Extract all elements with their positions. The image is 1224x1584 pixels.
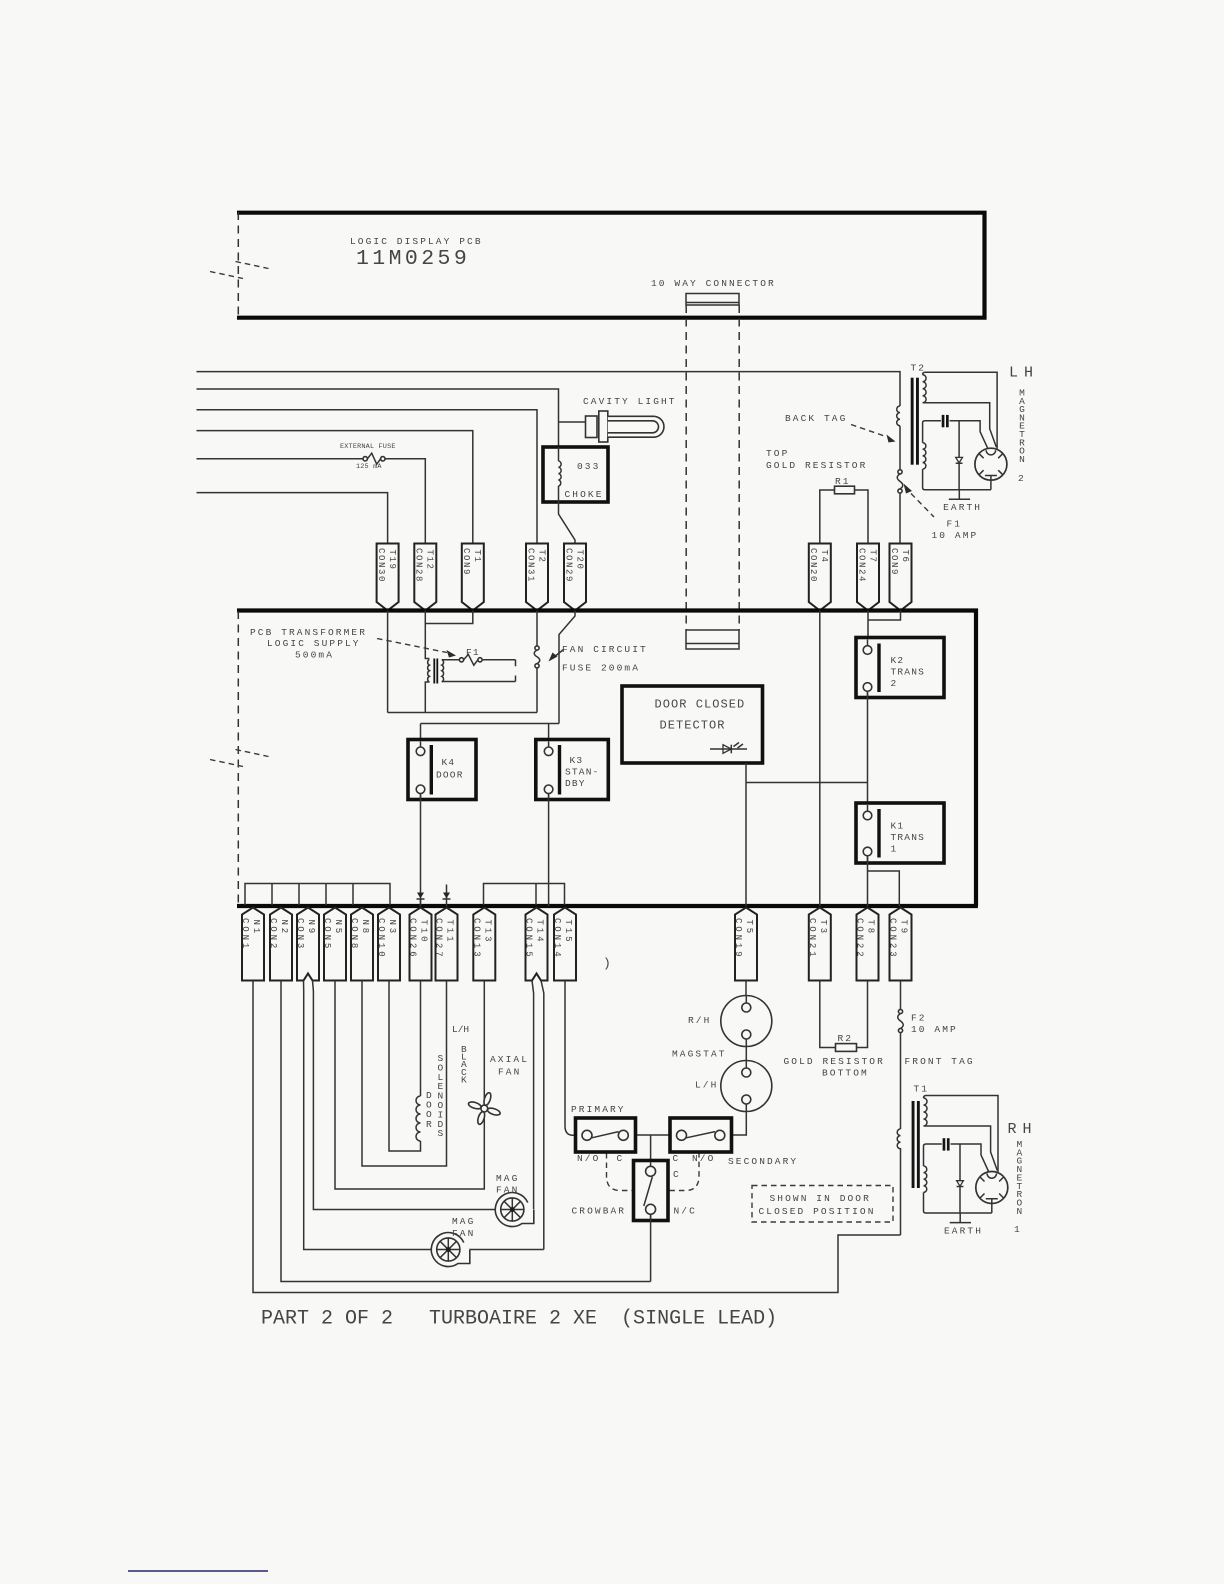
footer rule	[128, 1570, 268, 1572]
contact mark T11	[443, 885, 451, 907]
magstat L/H	[721, 1061, 772, 1112]
connector CON5/N5	[322, 908, 346, 981]
svg-text:DOOR CLOSED: DOOR CLOSED	[655, 698, 746, 712]
wire: fuse F1 to CON9/T6	[899, 493, 901, 543]
svg-text:SOLENOIDS: SOLENOIDS	[438, 1053, 444, 1139]
label BACK TAG with leader	[785, 413, 896, 443]
wire: K1 to CON22 and CON23	[868, 856, 900, 906]
PCB transformer logic supply	[425, 624, 515, 713]
wire: magstat to secondary switch	[732, 1104, 747, 1135]
wire B: feed to cavity light and choke	[197, 389, 559, 447]
svg-text:CON21: CON21	[807, 918, 817, 960]
svg-text:N5: N5	[333, 920, 343, 937]
wire: CON20 to CON21 through	[819, 611, 821, 907]
svg-text:CROWBAR: CROWBAR	[572, 1206, 627, 1217]
svg-text:MAGNETRON: MAGNETRON	[1016, 1139, 1022, 1217]
svg-text:MAG: MAG	[452, 1216, 475, 1227]
svg-text:T7: T7	[867, 550, 877, 564]
connector CON31/T2	[525, 544, 548, 611]
svg-text:DBY: DBY	[565, 778, 586, 789]
svg-text:T14: T14	[535, 920, 545, 945]
svg-text:L/H: L/H	[695, 1080, 718, 1091]
fuse F2 10 AMP	[898, 1009, 904, 1032]
svg-text:CON22: CON22	[855, 918, 865, 960]
svg-text:CON31: CON31	[525, 548, 535, 583]
connector CON22/T8	[855, 908, 879, 981]
wire T3: CON21 to R2	[820, 981, 836, 1048]
wire N9b: CON3 to mag fan 1	[313, 981, 534, 1210]
fan circuit fuse 200mA	[534, 611, 540, 713]
svg-text:T2: T2	[536, 550, 546, 564]
svg-text:10 AMP: 10 AMP	[911, 1024, 958, 1035]
relay K1 TRANS 1	[856, 803, 944, 863]
svg-text:RH: RH	[1008, 1121, 1038, 1138]
wire: K4 to door solenoid connector	[420, 794, 422, 906]
wire N2: CON2 to crowbar	[281, 981, 651, 1282]
logic display PCB box left dashed edge	[237, 212, 239, 318]
svg-text:L/H: L/H	[452, 1024, 469, 1035]
main PCB box	[237, 608, 978, 906]
external fuse 125 mA	[363, 453, 385, 464]
svg-text:K3: K3	[570, 755, 584, 766]
10 way connector dashed ribbon	[686, 305, 739, 630]
relay K4 DOOR	[408, 740, 476, 800]
svg-text:CON27: CON27	[434, 918, 444, 960]
wire: detector branch to K1/K2 net	[746, 782, 868, 784]
wire N5: CON5 to CON13 via axial fan	[335, 981, 484, 1190]
svg-text:FRONT TAG: FRONT TAG	[905, 1056, 975, 1067]
svg-text:CON26: CON26	[408, 918, 418, 960]
svg-text:CON20: CON20	[808, 548, 818, 583]
shown in door closed position note	[752, 1186, 893, 1223]
svg-text:F1: F1	[466, 647, 480, 658]
connector CON21/T3	[807, 908, 831, 981]
svg-text:T15: T15	[563, 920, 573, 945]
wire T14b: CON15 to mag fan 2	[541, 981, 544, 1250]
leader arrow to F1	[377, 639, 456, 658]
svg-text:2: 2	[891, 678, 898, 689]
svg-text:TRANS: TRANS	[891, 667, 926, 678]
wire: switch common link	[636, 1134, 671, 1136]
svg-text:10 WAY CONNECTOR: 10 WAY CONNECTOR	[651, 278, 776, 289]
svg-text:FAN: FAN	[496, 1184, 519, 1195]
axial fan	[463, 1088, 505, 1130]
svg-text:TRANS: TRANS	[891, 832, 926, 843]
svg-text:T6: T6	[900, 550, 910, 564]
solder strip comb right	[484, 884, 565, 906]
connector CON28/T12	[414, 544, 437, 611]
wire: K2 to K1	[867, 691, 869, 811]
svg-text:CON8: CON8	[349, 918, 359, 951]
wire: K4 coil drop	[420, 724, 422, 748]
wire between magstats	[745, 996, 747, 1069]
wire: detector to CON19	[745, 763, 747, 906]
wire: R1 to CON24	[855, 490, 869, 544]
svg-text:R2: R2	[838, 1033, 854, 1044]
transformer T1 and magnetron 1 assembly	[912, 1096, 1008, 1237]
cavity light	[586, 411, 664, 442]
svg-text:SHOWN IN DOOR: SHOWN IN DOOR	[770, 1193, 871, 1204]
connector CON26/T10	[408, 908, 432, 981]
svg-text:T1: T1	[914, 1084, 930, 1095]
svg-text:DOOR: DOOR	[436, 770, 464, 781]
wire: CON24 and T6 to K2	[868, 611, 901, 646]
svg-text:LOGIC SUPPLY: LOGIC SUPPLY	[267, 638, 361, 649]
wire: cavity light branch	[559, 421, 586, 423]
svg-text:T8: T8	[866, 920, 876, 937]
svg-text:CON29: CON29	[563, 548, 573, 583]
crowbar switch	[634, 1161, 669, 1221]
svg-text:DOOR: DOOR	[426, 1090, 432, 1130]
wire N9a: CON3 to mag fan 2	[304, 981, 544, 1250]
svg-text:MAGSTAT: MAGSTAT	[672, 1049, 727, 1060]
svg-text:N9: N9	[306, 920, 316, 937]
wire N1: CON1 to T1 primary return	[253, 981, 901, 1293]
transformer T1 primary coil	[897, 1129, 900, 1149]
svg-text:CON3: CON3	[295, 918, 305, 951]
connector CON23/T9	[888, 908, 912, 981]
svg-text:TOP: TOP	[766, 448, 789, 459]
wire: K3 to CON15 strip	[548, 794, 550, 906]
connector CON15/T14	[524, 908, 548, 981]
connector CON30/T19	[376, 544, 399, 611]
broken link to fan rail	[515, 660, 517, 682]
svg-text:): )	[603, 956, 611, 971]
connector CON20/T4	[808, 544, 831, 611]
svg-text:AXIAL: AXIAL	[490, 1054, 529, 1065]
connector CON3/N9	[295, 908, 319, 981]
svg-text:1: 1	[891, 844, 898, 855]
svg-text:C: C	[673, 1169, 681, 1180]
svg-text:N8: N8	[360, 920, 370, 937]
wire T14a: CON15 to mag fan 1	[532, 981, 534, 1211]
svg-text:CAVITY LIGHT: CAVITY LIGHT	[583, 396, 677, 407]
door solenoids coil	[416, 1096, 421, 1141]
svg-text:T9: T9	[899, 920, 909, 937]
svg-text:N/C: N/C	[674, 1206, 697, 1217]
logic display PCB box 11M0259	[237, 211, 985, 320]
svg-text:125 mA: 125 mA	[356, 463, 382, 471]
wire: R2 to CON22	[857, 981, 868, 1048]
wire: crowbar common drop	[650, 1135, 652, 1167]
svg-text:T4: T4	[819, 550, 829, 564]
transformer T2 and magnetron 2 assembly	[911, 372, 1007, 513]
resistor R2 gold bottom	[836, 1044, 857, 1052]
svg-text:LOGIC DISPLAY PCB: LOGIC DISPLAY PCB	[350, 236, 483, 247]
svg-text:PART 2 OF 2 TURBOAIRE 2 XE: PART 2 OF 2 TURBOAIRE 2 XE (SINGLE LEAD)	[261, 1308, 777, 1331]
svg-text:STAN-: STAN-	[565, 767, 600, 778]
wire N8: CON8 to CON27	[362, 981, 447, 1167]
wire N3: CON10 to CON26 via door solenoids	[389, 981, 421, 1152]
svg-text:CON24: CON24	[856, 548, 866, 583]
svg-text:2: 2	[1018, 473, 1025, 484]
svg-text:T3: T3	[818, 920, 828, 937]
svg-text:SECONDARY: SECONDARY	[728, 1156, 798, 1167]
svg-text:BOTTOM: BOTTOM	[822, 1068, 869, 1079]
door closed detector box	[622, 686, 763, 763]
svg-text:N2: N2	[279, 920, 289, 937]
svg-text:T11: T11	[445, 920, 455, 945]
svg-text:CON28: CON28	[414, 548, 424, 583]
wire: choke to CON29	[559, 502, 576, 544]
svg-text:T5: T5	[744, 920, 754, 937]
10 way connector bottom header	[686, 630, 739, 649]
svg-text:T19: T19	[387, 550, 397, 571]
svg-text:T1: T1	[472, 550, 482, 564]
secondary interlock switch	[670, 1118, 732, 1152]
wire: CON29 to relay coil rail	[421, 611, 576, 724]
wire: crowbar to N2 row	[650, 1214, 652, 1281]
choke 033	[543, 447, 608, 502]
connector CON8/N8	[349, 908, 373, 981]
connector CON24/T7	[856, 544, 879, 611]
svg-text:N/O: N/O	[692, 1153, 715, 1164]
mag fan 2	[431, 1233, 470, 1267]
leader arrow to fan fuse	[549, 650, 564, 662]
wire: F2 to T1 primary	[900, 1033, 902, 1129]
wire: CON30 drop to rail	[387, 611, 389, 713]
contact mark T10	[417, 893, 425, 907]
svg-text:F2: F2	[911, 1013, 927, 1024]
10 way connector top header	[686, 294, 739, 306]
wire D: feed to CON9	[197, 431, 473, 544]
wire: CON28/CON9 junction loop	[425, 611, 473, 624]
svg-text:CON19: CON19	[733, 918, 743, 960]
svg-text:11M0259: 11M0259	[356, 247, 470, 271]
svg-text:BLACK: BLACK	[461, 1044, 467, 1085]
connector CON19/T5	[733, 908, 757, 981]
svg-text:BACK TAG: BACK TAG	[785, 413, 847, 424]
svg-text:K2: K2	[891, 655, 905, 666]
connector CON29/T20	[563, 544, 586, 611]
svg-text:FAN: FAN	[498, 1067, 521, 1078]
wire: T2 primary to fuse F1	[899, 426, 901, 470]
svg-text:CHOKE: CHOKE	[565, 489, 604, 500]
svg-text:F1: F1	[947, 519, 963, 530]
svg-text:PRIMARY: PRIMARY	[571, 1104, 626, 1115]
wire: R1 to CON20	[820, 490, 835, 544]
connector CON27/T11	[434, 908, 458, 981]
svg-text:GOLD RESISTOR: GOLD RESISTOR	[766, 460, 867, 471]
svg-text:K1: K1	[891, 821, 905, 832]
relay K3 STANDBY	[536, 740, 609, 800]
label F1 10 AMP with leader	[904, 484, 979, 542]
break symbol (left continuation lower)	[210, 750, 269, 767]
svg-text:C: C	[673, 1153, 681, 1164]
fuse F1 500mA	[459, 654, 482, 665]
wire T15: CON14 to primary switch	[565, 981, 578, 1136]
svg-text:1: 1	[1014, 1224, 1021, 1235]
connector CON9/T6	[889, 544, 912, 611]
wire C: feed to CON31	[197, 410, 538, 544]
svg-text:N3: N3	[387, 920, 397, 937]
svg-text:CON9: CON9	[461, 548, 471, 576]
primary interlock switch	[576, 1118, 636, 1152]
wire: K3 coil drop	[548, 724, 550, 748]
relay K2 TRANS 2	[856, 638, 944, 698]
wire: T1 primary lower to return	[900, 1148, 902, 1235]
svg-text:FAN CIRCUIT: FAN CIRCUIT	[562, 644, 648, 655]
break symbol (top left continuation)	[210, 262, 269, 279]
transformer T2 primary coil	[897, 406, 900, 426]
svg-text:CON14: CON14	[552, 918, 562, 960]
svg-text:T12: T12	[425, 550, 435, 571]
switch linkage (dashed)	[607, 1153, 700, 1191]
wire A: mains feed to T2 primary	[197, 372, 901, 406]
svg-text:CON15: CON15	[524, 918, 534, 960]
svg-text:PCB TRANSFORMER: PCB TRANSFORMER	[250, 627, 367, 638]
svg-text:T10: T10	[419, 920, 429, 945]
solder strip comb left	[245, 884, 390, 906]
wire: logic supply rail	[388, 712, 537, 714]
wire T5: CON19 to magstat	[745, 981, 747, 1004]
svg-text:EXTERNAL FUSE: EXTERNAL FUSE	[340, 443, 396, 451]
svg-text:MAG: MAG	[496, 1173, 519, 1184]
connector CON1/N1	[240, 908, 264, 981]
svg-text:N1: N1	[251, 920, 261, 937]
svg-text:CON10: CON10	[376, 918, 386, 960]
connector CON13/T13	[471, 908, 495, 981]
svg-text:N/O: N/O	[577, 1153, 600, 1164]
svg-text:CON2: CON2	[268, 918, 278, 951]
wire F: feed to CON30	[197, 493, 388, 544]
mag fan 1	[495, 1193, 534, 1227]
svg-text:500mA: 500mA	[295, 650, 334, 661]
svg-text:033: 033	[577, 461, 600, 472]
resistor R1 gold top	[835, 486, 855, 494]
svg-text:CON30: CON30	[376, 548, 386, 583]
svg-text:CON9: CON9	[889, 548, 899, 576]
svg-text:FUSE 200mA: FUSE 200mA	[562, 663, 640, 674]
svg-text:T20: T20	[574, 550, 584, 571]
svg-text:K4: K4	[442, 757, 456, 768]
svg-text:GOLD RESISTOR: GOLD RESISTOR	[784, 1056, 885, 1067]
fuse F1 10 AMP	[897, 470, 903, 493]
svg-text:CON5: CON5	[322, 918, 332, 951]
svg-text:MAGNETRON: MAGNETRON	[1019, 388, 1025, 465]
svg-text:FAN: FAN	[452, 1228, 475, 1239]
connector CON2/N2	[268, 908, 292, 981]
svg-text:C: C	[617, 1153, 625, 1164]
svg-text:CLOSED POSITION: CLOSED POSITION	[759, 1206, 876, 1217]
connector CON10/N3	[376, 908, 400, 981]
wire T9: CON23 to fuse F2	[900, 981, 902, 1010]
connector CON9/T1	[461, 544, 484, 611]
wire E: feed with external fuse to CON28	[197, 459, 426, 544]
svg-text:CON1: CON1	[240, 918, 250, 951]
svg-text:R1: R1	[835, 476, 851, 487]
svg-text:T2: T2	[911, 363, 927, 374]
svg-text:CON13: CON13	[471, 918, 481, 960]
connector CON14/T15	[552, 908, 576, 981]
detector diode	[710, 743, 747, 754]
svg-text:DETECTOR: DETECTOR	[660, 719, 726, 733]
magstat R/H	[721, 996, 772, 1047]
svg-text:R/H: R/H	[688, 1015, 711, 1026]
svg-text:LH: LH	[1009, 365, 1039, 382]
main PCB box left dashed edge	[237, 611, 239, 905]
svg-text:T13: T13	[482, 920, 492, 945]
svg-text:CON23: CON23	[888, 918, 898, 960]
svg-text:10 AMP: 10 AMP	[932, 530, 979, 541]
